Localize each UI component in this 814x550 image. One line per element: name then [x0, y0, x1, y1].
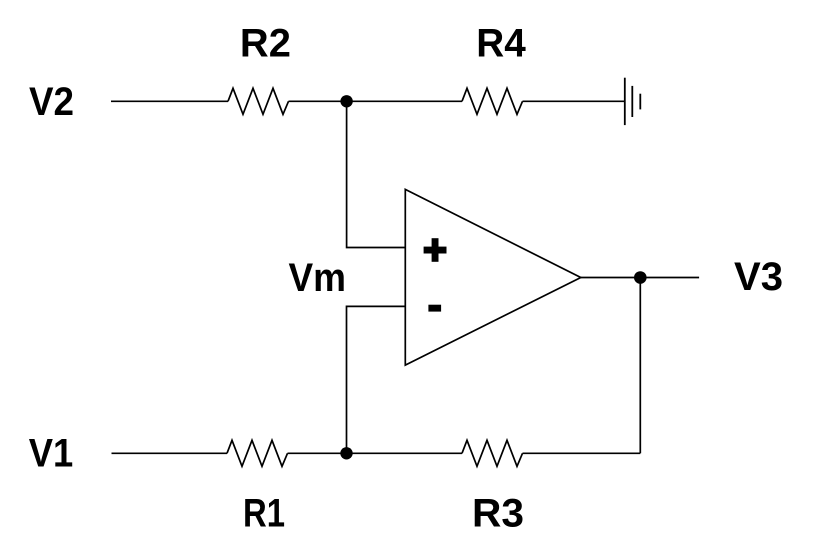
node Vm junction dot: [340, 447, 352, 459]
resistor R3: [462, 440, 523, 466]
resistor R2: [228, 88, 289, 114]
wire feedback vertical: [639, 278, 641, 454]
node output junction dot: [634, 271, 647, 284]
ground: [625, 78, 641, 125]
svg-text:R4: R4: [476, 22, 526, 66]
plus sign on + input: [424, 238, 447, 262]
wire top rail right (R4 to ground): [523, 100, 625, 102]
op-amp U1 triangle: [405, 189, 581, 365]
node Vp junction dot: [340, 95, 352, 107]
wire bottom rail right (R3 to feedback): [523, 452, 641, 454]
svg-text:V1: V1: [29, 432, 74, 476]
svg-text:R1: R1: [243, 491, 285, 535]
svg-text:Vm: Vm: [288, 256, 346, 300]
svg-text:R2: R2: [240, 22, 291, 66]
resistor R4: [462, 88, 523, 114]
wire bottom rail middle (R1 to R3): [288, 452, 463, 454]
wire op-amp output: [581, 277, 699, 279]
svg-text:V3: V3: [734, 255, 783, 299]
wire bottom rail left (V1 to R1): [112, 452, 228, 454]
wire from - input down to bottom node: [347, 306, 406, 453]
wire top rail left (V2 to R2): [111, 100, 228, 102]
wire top rail middle (R2 to R4): [289, 100, 463, 102]
minus sign on - input: [428, 305, 441, 312]
resistor R1: [227, 440, 288, 466]
wire from top node down to + input: [347, 101, 406, 247]
svg-text:R3: R3: [472, 491, 524, 535]
svg-text:V2: V2: [29, 80, 74, 124]
